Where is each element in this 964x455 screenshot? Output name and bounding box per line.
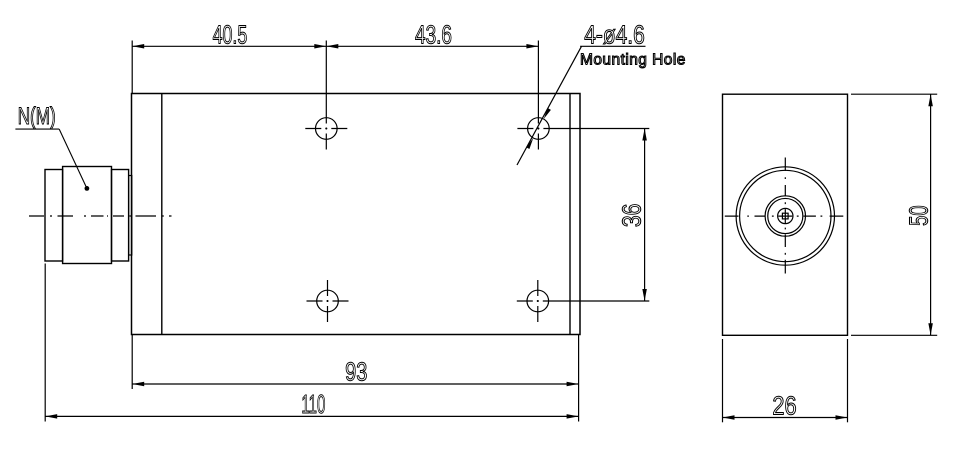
end view: connector outer inner ring [740, 170, 831, 261]
dimension 40.5 line [132, 45, 326, 47]
label leader arrow upper (points down-left at circle) [544, 108, 551, 119]
dimension 50 top arrow [928, 94, 933, 106]
dimension 36 top arrow [642, 129, 647, 141]
dimension 40.5 left arrow [132, 44, 144, 49]
label N(M) leader [15, 129, 87, 188]
dimension 110 left arrow [45, 414, 57, 419]
dimension 93 right arrow [567, 382, 579, 387]
extension line at x=132 above body [131, 41, 133, 94]
side view: connector centerline [29, 215, 172, 217]
dimension 43.6 line [326, 45, 538, 47]
extension line below connector x=45.2 [44, 264, 46, 422]
end view: connector center pin [782, 213, 788, 219]
dimension 50 bottom arrow [928, 323, 933, 335]
side view: connector left cap [45, 170, 63, 262]
extension line 50 bottom [851, 334, 937, 336]
mounting hole H4 bottom-right [527, 280, 549, 322]
extension line 26 left [722, 339, 724, 422]
dimension 50 line [930, 94, 932, 335]
svg-text:40.5: 40.5 [213, 19, 248, 49]
side view: connector main body [63, 167, 112, 264]
end view: connector small circle [778, 208, 793, 223]
side view: right flange inner line [569, 94, 571, 335]
svg-text:43.6: 43.6 [415, 19, 452, 49]
mounting hole H4 centerline extension to 36 dim [517, 300, 650, 302]
svg-text:4-ø4.6: 4-ø4.6 [584, 19, 645, 49]
dimension 93 line [132, 383, 578, 385]
label N(M) leader dot [85, 186, 90, 191]
dimension 93 left arrow [132, 382, 144, 387]
mounting hole H3 bottom-left [307, 280, 349, 322]
dimension 110 line [45, 415, 578, 417]
end view: connector mid ring outer [765, 196, 805, 236]
dimension 26 left arrow [723, 415, 735, 420]
dimension 26 line [723, 417, 848, 419]
end view: vertical centerline [784, 158, 786, 274]
mounting hole H2 top-right [528, 118, 550, 140]
svg-text:Mounting Hole: Mounting Hole [580, 52, 686, 69]
side view: connector step [129, 176, 132, 256]
dimension 36 line [644, 129, 646, 302]
end view: connector outer circle [736, 167, 834, 265]
label leader arrow lower (points up-right at circle) [526, 138, 533, 149]
svg-text:26: 26 [772, 390, 796, 420]
label 4-dia4.6 leader diagonal [517, 46, 582, 165]
label 4-dia4.6 underline [580, 45, 645, 47]
extension line 26 right [847, 339, 849, 422]
svg-text:36: 36 [617, 204, 647, 228]
end view: connector mid ring inner [768, 198, 803, 233]
svg-text:110: 110 [301, 389, 325, 419]
side view: connector ring [112, 170, 129, 262]
extension line through hole H2 [537, 41, 539, 150]
svg-text:93: 93 [345, 357, 367, 387]
extension line through hole H1 [325, 41, 327, 150]
mounting hole H1 top-left [305, 118, 347, 140]
dimension 43.6 right arrow [526, 44, 538, 49]
dimension 40.5 right arrow [314, 44, 326, 49]
extension line below body right x=578.6 [578, 335, 580, 422]
end view: horizontal centerline [725, 215, 844, 217]
end view: plate outline [723, 94, 848, 335]
side view: left flange inner line [161, 94, 163, 335]
dimension 36 bottom arrow [642, 289, 647, 301]
mounting hole H2 centerline extension to 36 dim [517, 128, 649, 130]
dimension 43.6 left arrow [326, 44, 338, 49]
side view: main body outline [132, 94, 581, 335]
svg-text:50: 50 [903, 205, 933, 226]
svg-text:N(M): N(M) [18, 103, 56, 130]
extension line below body left x=132 [131, 335, 133, 390]
dimension 26 right arrow [836, 415, 848, 420]
dimension 110 right arrow [567, 414, 579, 419]
extension line 50 top [851, 93, 937, 95]
